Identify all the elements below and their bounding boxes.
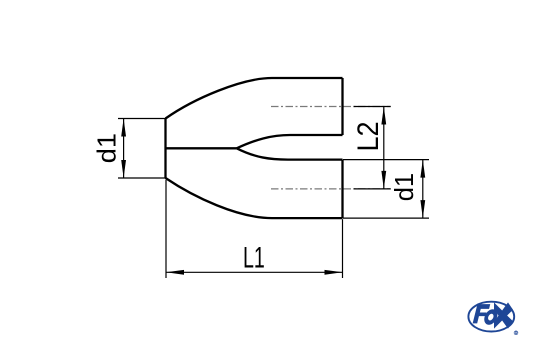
pipe bottom branch lower curve xyxy=(166,178,343,218)
FOX logo letter X xyxy=(494,302,513,328)
centerline bottom branch (dash-dot) xyxy=(271,188,391,190)
pipe bottom branch outlet edge xyxy=(341,160,343,219)
dimension line d1 right xyxy=(422,160,424,219)
arrowhead d1-left down xyxy=(121,160,126,178)
centerline top branch (dash-dot) xyxy=(271,106,391,108)
pipe center split line xyxy=(166,147,237,149)
arrowhead L1 left xyxy=(166,270,184,275)
arrowhead d1-left up xyxy=(121,119,126,137)
dimension line L2 xyxy=(383,107,385,189)
extension line d1-right bottom xyxy=(343,217,429,219)
pipe top branch upper curve xyxy=(166,78,343,119)
svg-text:L2: L2 xyxy=(352,121,385,151)
pipe top branch lower edge xyxy=(237,135,343,148)
FOX logo registered mark xyxy=(514,331,518,335)
pipe bottom branch upper edge xyxy=(237,148,343,159)
pipe top branch outlet edge xyxy=(341,78,343,135)
extension line d1-left top xyxy=(118,118,166,120)
extension line L2 top xyxy=(354,106,391,108)
svg-text:d1: d1 xyxy=(391,173,419,201)
FOX logo letter O xyxy=(483,309,499,325)
svg-text:L1: L1 xyxy=(243,242,265,275)
svg-text:d1: d1 xyxy=(94,133,122,163)
arrowhead d1-right down xyxy=(420,200,425,218)
pipe inlet edge xyxy=(164,119,166,179)
FOX logo letter F xyxy=(473,304,491,323)
arrowhead d1-right up xyxy=(420,160,425,178)
dimension line d1 left xyxy=(123,119,125,179)
arrowhead L2 down xyxy=(381,171,386,189)
dimension line L1 xyxy=(166,271,343,273)
arrowhead L1 right xyxy=(325,270,343,275)
extension line L1 right xyxy=(342,219,344,278)
FOX logo ellipse xyxy=(468,302,514,332)
extension line d1-left bottom xyxy=(118,177,166,179)
arrowhead L2 up xyxy=(381,107,386,125)
extension line d1-right top xyxy=(343,159,429,161)
extension line L1 left xyxy=(165,180,167,278)
extension line L2 bottom xyxy=(354,188,391,190)
